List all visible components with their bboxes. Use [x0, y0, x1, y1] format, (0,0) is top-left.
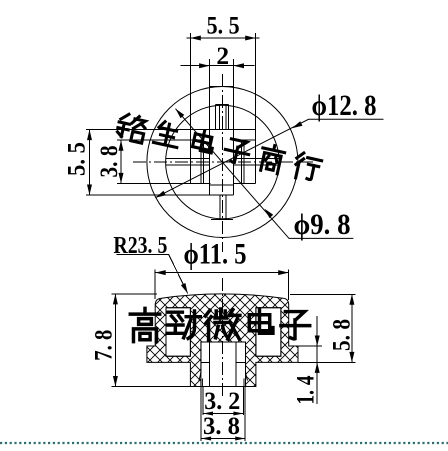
slot lower rect top edge [210, 184, 234, 186]
svg-text:ϕ11. 5: ϕ11. 5 [184, 238, 247, 271]
dim 5.5 (left vertical) [62, 130, 92, 195]
dim 7.8 (left) [89, 294, 191, 387]
slot top chord [210, 86, 234, 88]
svg-text:3. 8: 3. 8 [203, 411, 240, 440]
stem bottom edge [190, 386, 256, 388]
svg-text:2: 2 [216, 41, 229, 70]
recess step edges [201, 362, 210, 364]
section view vertical centerline [221, 278, 223, 397]
arm top edges + 3.8 top extension [117, 139, 204, 141]
dim 5.8 (right) [290, 294, 356, 362]
svg-text:5. 5: 5. 5 [62, 142, 91, 176]
svg-text:1. 4: 1. 4 [290, 375, 319, 404]
dim 3.2 (recess bottom) [203, 386, 243, 416]
cross square left edge / ext line for 5.5 [189, 33, 191, 183]
centerline horizontal (top view) [133, 161, 313, 163]
top view: rotor circle phi9.8 [166, 105, 280, 219]
trumpet arcs at recess opening [199, 372, 203, 387]
square top edge + left 5.5 top extension [86, 129, 256, 131]
svg-text:5. 8: 5. 8 [327, 319, 356, 351]
teal dotted boundary line [0, 442, 448, 444]
watermark "高劲微电子" (horizontal, section view) [130, 308, 309, 341]
cross square right edge / ext line for 5.5 [255, 33, 257, 183]
dim phi9.8 leader [176, 109, 354, 241]
inner notch lines left [200, 140, 202, 183]
dim phi12.8 leader [155, 89, 383, 198]
rotor cross-slot vertical slot left edge / ext line [209, 59, 211, 195]
svg-text:5. 5: 5. 5 [207, 11, 240, 40]
horizontal channel lines [166, 158, 210, 160]
rotor cross-slot vertical slot right edge / ext line [233, 59, 235, 195]
inner notch lines right [240, 140, 242, 183]
watermark "铭生电子商行" (diagonal, top view) [116, 113, 323, 183]
dim R23.5 leader [113, 232, 187, 294]
svg-text:3. 8: 3. 8 [94, 146, 123, 178]
svg-text:ϕ9. 8: ϕ9. 8 [294, 208, 351, 241]
top narrow channel lines [214, 104, 216, 129]
dim 2 (slot width) [181, 41, 255, 70]
section view hatch body [147, 294, 298, 387]
svg-text:R23. 5: R23. 5 [113, 232, 167, 259]
centerline vertical (top view) [221, 74, 223, 252]
slot bottom edge + left 5.5 bottom extension [86, 194, 234, 196]
svg-text:7. 8: 7. 8 [89, 330, 118, 361]
dim 5.5 (top) [187, 11, 260, 41]
dim phi11.5 [155, 238, 289, 301]
recess side walls [200, 342, 202, 373]
slot wall lines in stem [209, 342, 211, 386]
arm bottom edges + 3.8 bottom extension [117, 182, 211, 184]
dim 3.8 (left vertical) [94, 140, 124, 183]
top view: trimmer body outer circle phi12.8 [147, 87, 298, 238]
svg-text:ϕ12. 8: ϕ12. 8 [312, 89, 377, 122]
internal cavity outlines (white annular cavity in section) [166, 308, 190, 357]
dim 1.4 (flange lip) [290, 316, 322, 405]
bottom narrow channel lines [219, 195, 221, 219]
dim 3.8 (stem recess) [201, 387, 245, 442]
